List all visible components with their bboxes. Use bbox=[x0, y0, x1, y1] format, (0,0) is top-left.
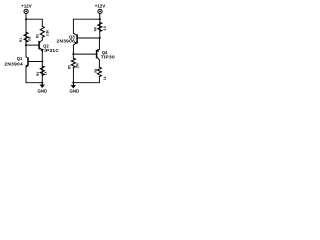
power symbol right bbox=[98, 9, 102, 13]
svg-text:TIP30: TIP30 bbox=[101, 55, 115, 61]
svg-text:Q2: Q2 bbox=[43, 44, 49, 49]
wire R5 down to ground rail bbox=[72, 68, 74, 83]
svg-text:GND: GND bbox=[70, 89, 80, 94]
transistor Q4 bbox=[97, 49, 100, 51]
wire J3 down to Q4 collector bbox=[98, 38, 100, 49]
wire Q4 emitter down bbox=[98, 60, 100, 67]
node A junction dot bbox=[25, 44, 27, 46]
wire Q2 emitter down bbox=[41, 51, 43, 83]
svg-text:GND: GND bbox=[38, 88, 48, 93]
node J5 junction dot bbox=[72, 82, 74, 84]
svg-text:TIP31C: TIP31C bbox=[41, 48, 59, 54]
resistor R1 bbox=[24, 32, 28, 42]
svg-text:1k: 1k bbox=[43, 71, 47, 75]
resistor R4 bbox=[98, 22, 102, 31]
resistor R3 bbox=[40, 66, 44, 75]
wire R2 to Q2 collector bbox=[41, 37, 43, 40]
svg-text:+12V: +12V bbox=[21, 3, 31, 8]
svg-text:10k: 10k bbox=[75, 63, 79, 69]
wire R6 down and left to ground rail bbox=[73, 77, 99, 83]
ground left bbox=[41, 83, 43, 85]
svg-text:R1: R1 bbox=[19, 38, 23, 42]
svg-text:Q1: Q1 bbox=[17, 56, 23, 61]
svg-text:R3: R3 bbox=[36, 72, 40, 76]
svg-text:R2: R2 bbox=[36, 34, 40, 38]
wire Q1 emitter down and right bbox=[26, 67, 42, 83]
svg-text:R6: R6 bbox=[94, 68, 98, 72]
ground right bbox=[72, 83, 74, 86]
svg-text:R5: R5 bbox=[68, 65, 72, 69]
transistor Q3 bbox=[73, 33, 76, 35]
node B junction dot bbox=[41, 60, 43, 62]
svg-text:2N3906: 2N3906 bbox=[56, 39, 75, 45]
node junction right rail bbox=[99, 18, 101, 20]
wire rail to R2 branch bbox=[26, 19, 42, 26]
svg-text:3.9k: 3.9k bbox=[45, 30, 49, 36]
wire +12V down right column bbox=[99, 14, 101, 39]
node J3 junction dot bbox=[99, 37, 101, 39]
resistor R2 bbox=[40, 26, 44, 37]
svg-text:+12V: +12V bbox=[95, 3, 105, 8]
node J4 junction dot bbox=[72, 53, 74, 55]
wire J4 to Q4 base bbox=[73, 53, 96, 55]
node C junction dot bbox=[41, 82, 43, 84]
svg-text:3.9: 3.9 bbox=[103, 26, 107, 31]
wire node A to Q2 base bbox=[26, 44, 39, 46]
power symbol left bbox=[24, 9, 28, 13]
svg-text:10k: 10k bbox=[28, 36, 32, 42]
svg-text:Q4: Q4 bbox=[102, 50, 108, 55]
resistor R6 bbox=[97, 67, 101, 76]
svg-text:R4: R4 bbox=[94, 27, 98, 31]
wire +12V down left column bbox=[25, 14, 27, 46]
wire rail to Q3 branch bbox=[73, 19, 99, 33]
wire J3 to Q3 base bbox=[78, 37, 100, 39]
transistor Q2 bbox=[40, 40, 43, 43]
transistor Q1 bbox=[26, 57, 28, 59]
wire node B to Q1 base bbox=[29, 61, 43, 63]
wire Q1 collector up to node A bbox=[25, 45, 27, 57]
svg-text:1k: 1k bbox=[103, 76, 107, 80]
node junction left rail bbox=[25, 18, 27, 20]
resistor R5 bbox=[71, 58, 75, 67]
wire Q3 collector down bbox=[72, 45, 74, 58]
svg-text:2N3904: 2N3904 bbox=[4, 62, 23, 68]
